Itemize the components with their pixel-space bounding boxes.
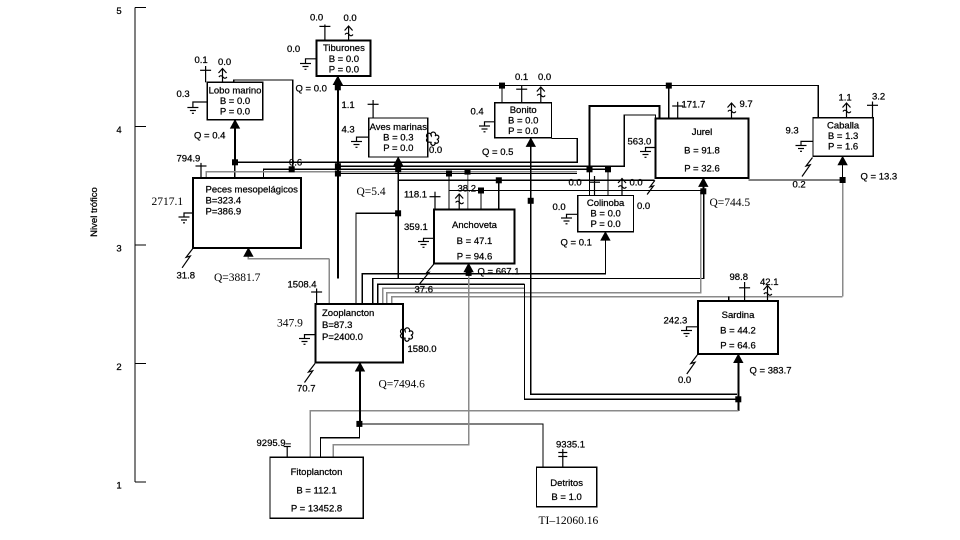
wire b5 Zoo to Jurel second xyxy=(387,191,701,304)
harvest cross Sardina xyxy=(739,282,750,301)
svg-text:3.2: 3.2 xyxy=(872,92,885,103)
wire b4 Zoo bus gray xyxy=(383,288,525,304)
svg-text:1.1: 1.1 xyxy=(342,100,355,111)
node A4 junction xyxy=(465,169,471,175)
box Anchoveta xyxy=(434,210,515,264)
box Sardina xyxy=(698,301,778,354)
svg-text:Aves marinas: Aves marinas xyxy=(370,122,428,133)
svg-text:0.0: 0.0 xyxy=(429,145,442,156)
arrow into Colinoba xyxy=(600,231,610,241)
svg-text:Detritos: Detritos xyxy=(550,478,583,489)
svg-text:Q = 667.1: Q = 667.1 xyxy=(478,267,520,278)
svg-text:0.0: 0.0 xyxy=(569,178,582,189)
svg-text:37.6: 37.6 xyxy=(415,285,434,296)
arrow into Bonito xyxy=(526,137,536,147)
box Tiburones xyxy=(317,40,371,76)
wire Jurel bottom line to Caballa junction xyxy=(749,156,843,180)
node Cojinoba band junction a xyxy=(587,166,593,172)
svg-text:B = 0.0: B = 0.0 xyxy=(590,209,620,220)
node Zoo bottom junction xyxy=(356,421,362,427)
svg-text:347.9: 347.9 xyxy=(277,318,303,330)
svg-text:0.0: 0.0 xyxy=(218,57,231,68)
svg-text:118.1: 118.1 xyxy=(404,190,427,201)
respiration ground Zooplancton xyxy=(299,335,316,345)
node A5 junction xyxy=(446,171,452,177)
svg-text:B = 47.1: B = 47.1 xyxy=(457,236,493,247)
svg-text:Q=3881.7: Q=3881.7 xyxy=(214,272,261,284)
svg-text:4.3: 4.3 xyxy=(342,125,355,136)
svg-text:0.0: 0.0 xyxy=(287,44,300,55)
svg-text:Zooplancton: Zooplancton xyxy=(322,308,374,319)
svg-text:Q=5.4: Q=5.4 xyxy=(357,186,386,198)
svg-text:0.0: 0.0 xyxy=(553,202,566,213)
harvest cross Caballa xyxy=(867,102,878,118)
wire Cojinoba top feed b xyxy=(607,169,609,195)
svg-text:0.1: 0.1 xyxy=(515,72,528,83)
svg-text:Q=7494.6: Q=7494.6 xyxy=(379,379,426,391)
svg-text:P = 94.6: P = 94.6 xyxy=(457,252,492,263)
svg-text:242.3: 242.3 xyxy=(664,316,688,327)
tick 3 xyxy=(135,244,146,246)
arrow into Caballa xyxy=(837,156,847,166)
svg-text:0.0: 0.0 xyxy=(538,72,551,83)
wire Sardina top entry xyxy=(728,297,730,301)
wire hC3 Fito to Anchoveta xyxy=(333,273,469,457)
export arrow Anchoveta xyxy=(455,194,463,210)
svg-text:P = 0.0: P = 0.0 xyxy=(329,65,359,76)
svg-text:0.0: 0.0 xyxy=(310,13,323,24)
svg-text:9335.1: 9335.1 xyxy=(556,440,585,451)
svg-text:98.8: 98.8 xyxy=(730,272,749,283)
wire pathX Sardina Q xyxy=(525,284,739,399)
harvest cross Bonito xyxy=(516,85,527,103)
wire V2 jog to Zoo top xyxy=(356,213,398,304)
harvest cross Colinoba xyxy=(589,176,600,196)
node Bonito Q junction xyxy=(528,198,534,204)
svg-text:1: 1 xyxy=(116,481,121,492)
svg-text:0.0: 0.0 xyxy=(637,201,650,212)
export arrow Sardina xyxy=(764,286,772,302)
svg-text:Nivel trófico: Nivel trófico xyxy=(89,187,100,237)
respiration ground Bonito xyxy=(479,122,495,132)
flow-to-detritus lightning Jurel xyxy=(647,180,655,194)
box Jurel xyxy=(655,118,748,177)
svg-text:P = 0.0: P = 0.0 xyxy=(508,126,538,137)
box Aves marinas xyxy=(369,118,428,157)
svg-text:Sardina: Sardina xyxy=(722,310,755,321)
svg-text:563.0: 563.0 xyxy=(628,137,652,148)
import double-cross Detritos xyxy=(558,449,567,467)
wire Jurel Q vertical xyxy=(702,178,704,191)
wire Zoo top drop b6 xyxy=(391,297,393,304)
svg-text:B = 0.0: B = 0.0 xyxy=(220,96,250,107)
node Jurel top junction xyxy=(666,83,672,89)
svg-text:0.6: 0.6 xyxy=(289,158,302,169)
svg-text:B = 44.2: B = 44.2 xyxy=(720,326,756,337)
svg-text:171.7: 171.7 xyxy=(682,100,706,111)
svg-text:P = 13452.8: P = 13452.8 xyxy=(291,504,342,515)
node Bonito top junction xyxy=(499,83,505,89)
svg-text:0.4: 0.4 xyxy=(471,107,484,118)
svg-text:Q = 383.7: Q = 383.7 xyxy=(750,366,792,377)
node Sardina Q junction xyxy=(735,396,741,402)
svg-text:Q = 0.1: Q = 0.1 xyxy=(561,238,592,249)
box Peces mesopelagicos xyxy=(193,178,301,248)
respiration ground Jurel xyxy=(640,148,655,158)
box Caballa xyxy=(813,118,873,157)
svg-text:Fitoplancton: Fitoplancton xyxy=(291,467,343,478)
BOXES xyxy=(193,40,873,518)
ARROWS xyxy=(230,76,848,372)
svg-text:0.1: 0.1 xyxy=(195,55,208,66)
svg-text:Peces mesopelágicos: Peces mesopelágicos xyxy=(206,185,299,196)
svg-text:B = 91.8: B = 91.8 xyxy=(684,146,720,157)
svg-text:1.1: 1.1 xyxy=(839,93,852,104)
svg-text:9295.9–: 9295.9– xyxy=(257,438,292,449)
svg-text:Q = 13.3: Q = 13.3 xyxy=(861,172,898,183)
flow-to-detritus lightning Zooplancton xyxy=(305,364,316,383)
node V1 band junction xyxy=(335,163,341,169)
svg-text:B = 0.3: B = 0.3 xyxy=(383,133,413,144)
wire V2 Aves feed vertical xyxy=(397,157,399,279)
node Lobo export junction xyxy=(289,166,295,172)
node Anchoveta top junction b xyxy=(496,177,502,183)
svg-text:Q = 0.4: Q = 0.4 xyxy=(194,131,225,142)
svg-text:Colinoba: Colinoba xyxy=(587,198,625,209)
respiration ground Peces xyxy=(179,213,194,223)
arrow into Zooplancton xyxy=(355,362,365,372)
svg-text:0.0: 0.0 xyxy=(344,13,357,24)
node Anchoveta top junction xyxy=(478,188,484,194)
svg-text:70.7: 70.7 xyxy=(297,384,316,395)
wire Peces top entry from A1 junction xyxy=(234,162,236,178)
node Aves band junction xyxy=(395,166,401,172)
svg-text:Q = 0.0: Q = 0.0 xyxy=(296,84,327,95)
wire Anchoveta top entry d xyxy=(498,180,500,209)
export arrow Lobo xyxy=(219,69,227,83)
svg-text:Caballa: Caballa xyxy=(827,121,860,132)
wire Caballa down to Zoo bus xyxy=(842,180,844,297)
respiration ground Colinoba xyxy=(561,214,578,224)
wire A1 bus 0.6 xyxy=(235,138,577,162)
node Lobo Q junction xyxy=(232,159,238,165)
svg-text:Bonito: Bonito xyxy=(510,105,537,116)
svg-text:P = 0.0: P = 0.0 xyxy=(220,107,250,118)
svg-text:2717.1: 2717.1 xyxy=(152,196,184,208)
respiration ground Lobo xyxy=(187,102,207,113)
svg-text:B=87.3: B=87.3 xyxy=(322,320,352,331)
node Cojinoba band junction b xyxy=(605,166,611,172)
svg-text:P=2400.0: P=2400.0 xyxy=(322,332,363,343)
svg-text:0.3: 0.3 xyxy=(177,89,190,100)
svg-text:P = 64.6: P = 64.6 xyxy=(720,341,755,352)
harvest cross Tiburones xyxy=(319,25,330,41)
svg-text:9.7: 9.7 xyxy=(740,99,753,110)
wire Lobo feed vertical xyxy=(234,120,236,163)
svg-text:Q = 0.5: Q = 0.5 xyxy=(482,147,513,158)
wire jog to Fito top xyxy=(321,424,360,457)
svg-text:B = 1.0: B = 1.0 xyxy=(551,492,581,503)
respiration ground Sardina xyxy=(681,327,698,337)
tick 2 xyxy=(135,363,146,365)
svg-text:Tiburones: Tiburones xyxy=(323,43,365,54)
svg-text:0.0: 0.0 xyxy=(678,375,691,386)
wire Cojinoba export up to Jurel xyxy=(590,106,660,169)
svg-text:P=386.9: P=386.9 xyxy=(206,207,242,218)
svg-text:5: 5 xyxy=(116,6,121,17)
wire A3 bus from Peces xyxy=(263,169,608,178)
arrow into Sardina xyxy=(733,354,743,364)
wire hC2 to Detritos xyxy=(359,424,543,468)
wire A2 bus to Jurel xyxy=(338,115,656,166)
tick 1 xyxy=(135,481,146,483)
arrow into Aves marinas xyxy=(393,157,403,167)
svg-text:TI–12060.16: TI–12060.16 xyxy=(539,515,599,527)
wire A6 bus to Jurel Q xyxy=(449,190,703,192)
harvest cross Peces xyxy=(196,163,207,178)
node Anchoveta Q junction xyxy=(466,270,472,276)
arrow into Anchoveta xyxy=(463,263,473,273)
svg-text:P = 0.0: P = 0.0 xyxy=(590,219,620,230)
import tick Fitoplancton xyxy=(284,447,291,458)
svg-text:B=323.4: B=323.4 xyxy=(206,196,242,207)
cloud Aves xyxy=(426,132,438,145)
arrow into Jurel xyxy=(698,177,708,187)
svg-text:P = 0.0: P = 0.0 xyxy=(383,143,413,154)
wire Lobo export to bus xyxy=(234,80,293,169)
svg-text:P = 1.6: P = 1.6 xyxy=(828,142,858,153)
wire top bus W1 Tiburones-Bonito-Jurel-Caballa xyxy=(338,86,819,118)
wire Anchoveta top entry c xyxy=(480,191,482,210)
harvest cross Aves xyxy=(368,100,379,118)
svg-text:0.0: 0.0 xyxy=(630,178,643,189)
wire Zoo export bus b6 to Caballa xyxy=(392,296,843,298)
flow-to-detritus diagonal Anchoveta xyxy=(420,264,434,284)
svg-text:4: 4 xyxy=(116,125,121,136)
svg-text:794.9: 794.9 xyxy=(177,154,201,165)
box Lobo marino xyxy=(207,82,262,119)
svg-text:B = 0.0: B = 0.0 xyxy=(508,116,538,127)
export arrow Caballa xyxy=(843,103,851,118)
wire b1 Zoo to Cojinoba xyxy=(362,232,605,304)
node Caballa Q junction xyxy=(840,177,846,183)
svg-text:3: 3 xyxy=(116,244,121,255)
wire b2 Zoo to Jurel xyxy=(373,191,704,304)
respiration ground Tiburones xyxy=(300,59,317,70)
wire Cojinoba top feed a xyxy=(589,169,591,195)
wire V1 Tiburones feed vertical xyxy=(337,76,339,279)
flow-to-detritus lightning Caballa xyxy=(802,158,813,177)
respiration ground Anchoveta xyxy=(418,238,434,247)
AXIS xyxy=(89,6,146,492)
node Jurel Q junction xyxy=(700,188,706,194)
wire Bonito Q vertical pathY xyxy=(531,138,737,394)
svg-text:B = 0.0: B = 0.0 xyxy=(329,54,359,65)
harvest cross Anchoveta xyxy=(430,192,441,210)
svg-text:Jurel: Jurel xyxy=(692,127,713,138)
svg-text:9.3: 9.3 xyxy=(786,126,799,137)
svg-text:42.1: 42.1 xyxy=(760,277,779,288)
node Tiburones Q junction xyxy=(335,84,341,90)
box Zooplancton xyxy=(316,304,404,363)
box Bonito xyxy=(495,103,552,138)
box Colinoba xyxy=(578,196,634,232)
svg-text:31.8: 31.8 xyxy=(177,271,196,282)
wire Zoo riser V xyxy=(328,259,330,304)
export arrow Colinoba xyxy=(618,179,626,196)
harvest cross Lobo xyxy=(200,66,211,82)
wire hC1 gray Fito to Sardina xyxy=(310,411,738,457)
export arrow Bonito xyxy=(537,87,545,103)
box Fitoplancton xyxy=(270,457,363,518)
wire A4 gray bus xyxy=(206,172,577,178)
wire Zoo bottom vertical xyxy=(359,363,361,424)
box Detritos xyxy=(536,467,596,506)
arrow into Tiburones xyxy=(333,76,343,86)
flow-to-detritus lightning Peces xyxy=(182,249,193,268)
svg-text:38.2: 38.2 xyxy=(458,184,477,195)
wire Jurel top feed from W1 xyxy=(668,86,670,119)
respiration ground Aves xyxy=(351,137,369,147)
wire b3 Zoo bus xyxy=(378,284,525,304)
wire Anchoveta top entry from A4 xyxy=(467,172,469,210)
export arrow Jurel xyxy=(728,103,736,118)
node Zoo riser junction xyxy=(335,171,341,177)
cloud Zooplancton xyxy=(400,328,412,341)
flow-to-detritus lightning Sardina xyxy=(687,355,698,374)
tick 4 xyxy=(135,126,146,128)
wire A3b bus Jurel corner xyxy=(398,179,654,181)
svg-text:0.2: 0.2 xyxy=(793,180,806,191)
wire Sardina bottom vertical xyxy=(737,354,739,411)
export arrow Tiburones xyxy=(345,26,353,40)
harvest cross Zooplancton xyxy=(311,289,322,305)
wire Bonito top feed xyxy=(501,86,503,103)
respiration ground Caballa xyxy=(796,141,814,151)
svg-text:B = 1.3: B = 1.3 xyxy=(828,131,858,142)
svg-text:Lobo marino: Lobo marino xyxy=(209,86,262,97)
tick 5 xyxy=(135,7,146,9)
wire A5 bus Zoo to Anchoveta xyxy=(338,173,577,175)
svg-text:1508.4: 1508.4 xyxy=(288,280,317,291)
wire Anchoveta top entry e xyxy=(448,174,450,210)
node V2 jog junction xyxy=(395,210,401,216)
svg-text:359.1: 359.1 xyxy=(404,222,428,233)
svg-text:Anchoveta: Anchoveta xyxy=(452,220,498,231)
arrow into Lobo marino xyxy=(230,119,240,129)
svg-text:Q=744.5: Q=744.5 xyxy=(710,197,751,209)
svg-text:P = 32.6: P = 32.6 xyxy=(684,164,719,175)
harvest cross Jurel xyxy=(672,102,683,119)
axis line xyxy=(134,8,136,483)
svg-text:2: 2 xyxy=(116,362,121,373)
svg-text:B = 112.1: B = 112.1 xyxy=(296,486,336,497)
wire Zoo to Peces branch xyxy=(248,250,329,259)
svg-text:1580.0: 1580.0 xyxy=(408,344,437,355)
arrow into Peces xyxy=(243,247,253,256)
